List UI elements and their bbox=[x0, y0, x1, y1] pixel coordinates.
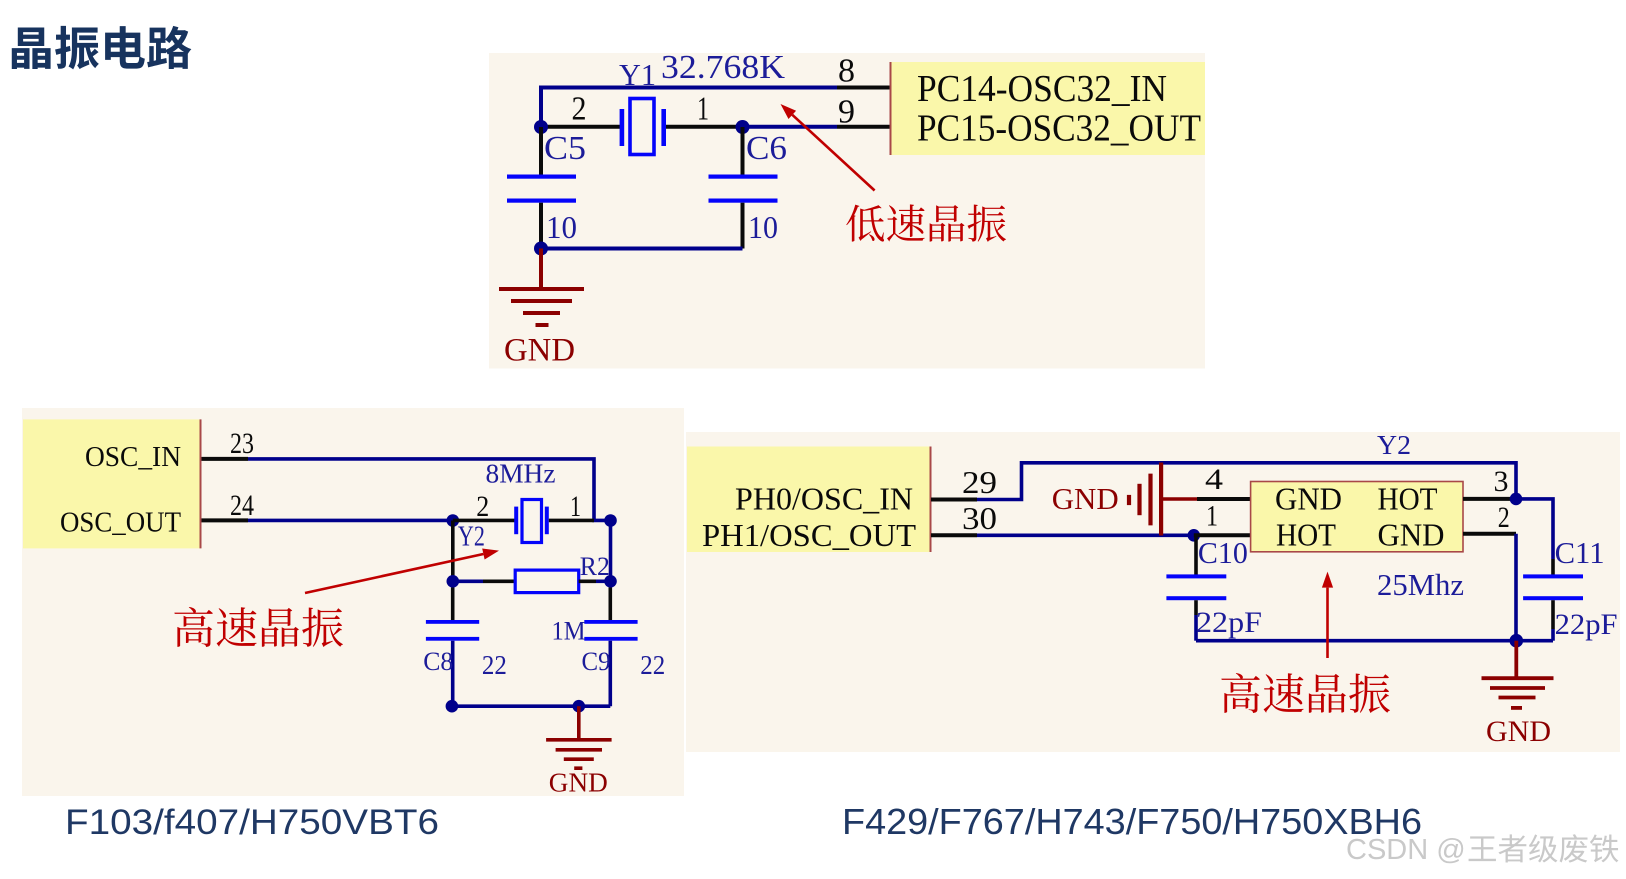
svg-text:GND: GND bbox=[1486, 715, 1551, 748]
top schematic panel background bbox=[489, 53, 1205, 369]
wire: node to Y2 pin 1 (black) bbox=[1194, 533, 1251, 537]
wire: Y2 pin2 (black) bbox=[453, 519, 515, 523]
red annotation arrow (left high speed) bbox=[305, 554, 483, 593]
pin 23 stub (black) bbox=[202, 457, 249, 461]
svg-text:22: 22 bbox=[640, 650, 665, 680]
svg-text:29: 29 bbox=[962, 464, 997, 500]
capacitor C8 bbox=[451, 588, 455, 621]
sideways ground symbol bbox=[1129, 463, 1161, 536]
wire: Y2 pin 3 (black) bbox=[1463, 497, 1516, 501]
svg-text:22pF: 22pF bbox=[1196, 606, 1262, 639]
wire: Y1 pin2 horizontal (black pin wire) bbox=[541, 125, 621, 129]
wire: net PC14-OSC32_IN from Y1 pin2 up and across to pin 8 bbox=[541, 88, 837, 130]
svg-text:Y2: Y2 bbox=[458, 521, 485, 553]
svg-text:1: 1 bbox=[1206, 499, 1218, 532]
junction node Y2 pin2 bbox=[447, 514, 460, 527]
capacitor C5 bbox=[539, 127, 543, 177]
wire: PH1 net to Y2 pin1 node bbox=[977, 533, 1194, 537]
svg-text:PH0/OSC_IN: PH0/OSC_IN bbox=[735, 481, 913, 517]
wire: ground bus (right circuit) bbox=[1196, 639, 1553, 643]
bottom-right schematic panel background bbox=[686, 432, 1620, 752]
svg-text:9: 9 bbox=[838, 94, 855, 131]
junction node GND tap bbox=[573, 700, 586, 713]
junction node ground tap bbox=[1510, 634, 1524, 648]
wire: right branch down to R2/C9 bbox=[609, 521, 613, 582]
wire: Y1 pin1 to node (black) bbox=[666, 125, 742, 129]
ground symbol (bottom-left circuit) bbox=[546, 706, 612, 768]
junction node R2 left bbox=[447, 575, 460, 588]
svg-text:22pF: 22pF bbox=[1555, 608, 1618, 641]
annotation text 高速晶振 (right) bbox=[1221, 673, 1390, 713]
capacitor C6 bbox=[741, 127, 745, 177]
svg-text:4: 4 bbox=[1205, 463, 1223, 496]
svg-text:CSDN @: CSDN @ bbox=[1346, 834, 1466, 866]
svg-text:C10: C10 bbox=[1198, 535, 1248, 570]
svg-text:10: 10 bbox=[748, 209, 778, 245]
svg-text:PC15-OSC32_OUT: PC15-OSC32_OUT bbox=[917, 108, 1201, 150]
svg-text:PC14-OSC32_IN: PC14-OSC32_IN bbox=[917, 68, 1167, 110]
wire: PH0 net up across top to pin 3 node bbox=[977, 463, 1516, 500]
crystal Y2 body bbox=[514, 507, 518, 535]
svg-text:GND: GND bbox=[549, 768, 608, 798]
junction node C8 bottom bbox=[446, 700, 459, 713]
svg-text:24: 24 bbox=[230, 489, 254, 522]
resistor R2 bbox=[453, 579, 483, 583]
annotation text 低速晶振 bbox=[846, 204, 1006, 241]
wire: GND to Y2 pin 4 (maroon then black pin) bbox=[1163, 497, 1197, 501]
svg-text:GND: GND bbox=[1052, 481, 1119, 516]
red annotation arrow (right high speed, pointing up) bbox=[1326, 588, 1329, 658]
svg-text:32.768K: 32.768K bbox=[661, 49, 785, 86]
capacitor C9 bbox=[608, 588, 612, 621]
sheet entry box PC14/PC15 bbox=[891, 62, 1205, 155]
wire: Y2 pin 2 (black) bbox=[1463, 532, 1516, 536]
crystal module Y2 body (yellow box) bbox=[1251, 482, 1463, 552]
svg-text:22: 22 bbox=[482, 650, 507, 680]
red annotation arrow (low speed) bbox=[792, 115, 874, 191]
bottom-left schematic panel background bbox=[22, 408, 684, 796]
svg-text:Y2: Y2 bbox=[1377, 430, 1411, 460]
pin 30 stub (black) bbox=[931, 533, 977, 537]
svg-text:2: 2 bbox=[572, 91, 587, 128]
svg-text:HOT: HOT bbox=[1276, 517, 1336, 553]
svg-text:1: 1 bbox=[570, 490, 581, 523]
capacitor C11 bbox=[1551, 559, 1555, 576]
wire: ground bus under C5/C6 bbox=[541, 247, 743, 251]
svg-text:F429/F767/H743/F750/H750XBH6: F429/F767/H743/F750/H750XBH6 bbox=[842, 801, 1422, 842]
wire: ground bus under C8/C9 bbox=[452, 704, 610, 708]
pin 9 stub (black) into sheet entry box bbox=[837, 125, 890, 129]
wire: OSC_OUT net to Y2 pin2 node bbox=[248, 519, 453, 523]
svg-text:1: 1 bbox=[697, 91, 709, 128]
ground symbol (bottom-right circuit) bbox=[1482, 641, 1554, 708]
junction node pin 3 bbox=[1510, 493, 1523, 506]
svg-text:F103/f407/H750VBT6: F103/f407/H750VBT6 bbox=[65, 803, 439, 842]
ground symbol (top circuit) bbox=[499, 249, 584, 326]
svg-text:C6: C6 bbox=[746, 130, 787, 167]
svg-text:Y1: Y1 bbox=[619, 57, 656, 92]
svg-text:8: 8 bbox=[838, 53, 855, 90]
svg-text:3: 3 bbox=[1494, 465, 1509, 498]
annotation text 高速晶振 (left) bbox=[174, 607, 343, 647]
junction node R2 right bbox=[604, 575, 617, 588]
svg-text:23: 23 bbox=[230, 427, 254, 460]
wire: Y2 pin1 (black) bbox=[549, 519, 594, 523]
junction node at Y1 pin2 / C5 bbox=[534, 120, 548, 134]
svg-text:C11: C11 bbox=[1555, 535, 1605, 570]
svg-text:HOT: HOT bbox=[1378, 481, 1438, 517]
svg-text:2: 2 bbox=[1498, 501, 1510, 534]
svg-text:R2: R2 bbox=[580, 552, 610, 581]
svg-text:25Mhz: 25Mhz bbox=[1377, 567, 1464, 602]
junction node at C5 bottom / GND bbox=[534, 242, 548, 256]
svg-text:2: 2 bbox=[476, 490, 489, 523]
svg-text:PH1/OSC_OUT: PH1/OSC_OUT bbox=[702, 517, 916, 553]
pin 29 stub (black) bbox=[931, 498, 977, 502]
page title 晶振电路 bbox=[12, 26, 192, 70]
svg-text:GND: GND bbox=[1378, 517, 1445, 553]
watermark 王者级废铁 bbox=[1469, 834, 1619, 862]
junction node Y2 pin1 / C10 bbox=[1188, 529, 1201, 542]
wire: OSC_IN net across and down to Y2 pin1 node bbox=[248, 459, 611, 521]
wire: net PC15-OSC32_OUT from node at Y1 pin1 to pin 9 bbox=[742, 125, 837, 129]
junction node Y2 pin1 bbox=[604, 514, 617, 527]
svg-text:OSC_OUT: OSC_OUT bbox=[60, 507, 181, 538]
pin 8 stub (black) into sheet entry box bbox=[837, 86, 890, 90]
wire: pin2 down to ground bus bbox=[1514, 534, 1518, 641]
svg-text:C8: C8 bbox=[423, 647, 453, 676]
wire: pin3 node over to C11 branch bbox=[1516, 499, 1553, 559]
svg-text:C9: C9 bbox=[582, 647, 611, 676]
svg-text:GND: GND bbox=[504, 333, 575, 369]
svg-text:10: 10 bbox=[546, 209, 577, 245]
sheet entry box PH0/PH1 bbox=[687, 447, 930, 553]
junction node at Y1 pin1 / C6 bbox=[736, 120, 750, 134]
svg-text:8MHz: 8MHz bbox=[486, 459, 556, 489]
capacitor C10 bbox=[1194, 535, 1198, 574]
svg-text:GND: GND bbox=[1275, 481, 1342, 517]
svg-text:C5: C5 bbox=[544, 130, 586, 167]
svg-text:30: 30 bbox=[962, 500, 997, 536]
wire: left branch down to R2/C8 (black) bbox=[451, 521, 455, 582]
pin 24 stub (black) bbox=[202, 518, 249, 522]
sheet entry box OSC_IN/OSC_OUT bbox=[23, 419, 200, 548]
svg-text:1M: 1M bbox=[552, 617, 586, 646]
svg-text:OSC_IN: OSC_IN bbox=[85, 442, 181, 473]
crystal Y1 body bbox=[620, 109, 625, 146]
